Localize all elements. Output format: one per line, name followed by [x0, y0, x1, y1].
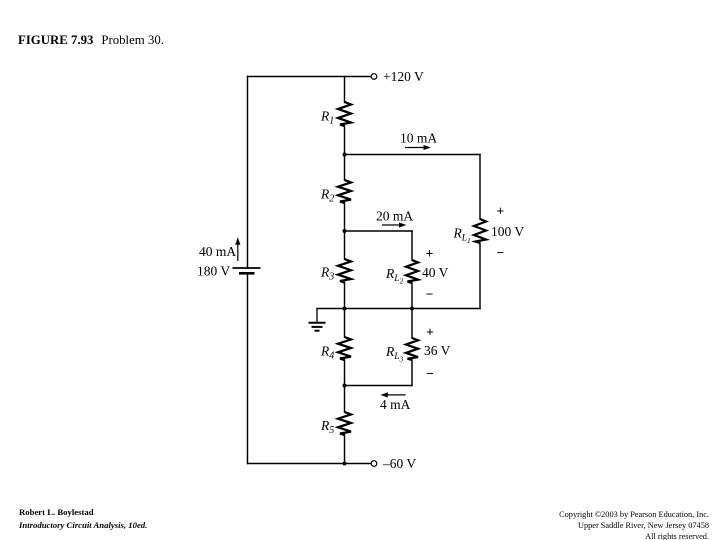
- wire: RL1 branch vertical upper: [479, 155, 481, 220]
- wire: 20 mA branch horizontal: [345, 230, 413, 232]
- svg-text:180 V: 180 V: [197, 264, 230, 279]
- node: bottom bus junction: [343, 462, 347, 466]
- node: main/ground bus junction: [343, 307, 347, 311]
- arrow: 4 mA current (left): [380, 392, 405, 397]
- svg-text:R1: R1: [320, 109, 334, 127]
- wire: main ladder R5 to bottom bus: [344, 435, 346, 464]
- arrow: 40 mA current (up): [235, 237, 240, 261]
- svg-text:+: +: [426, 325, 434, 340]
- resistor R1 zigzag: [338, 102, 351, 126]
- svg-text:RL1: RL1: [453, 226, 471, 245]
- resistor R3 zigzag: [338, 259, 351, 283]
- svg-text:−: −: [426, 366, 434, 381]
- wire: left source branch upper segment: [247, 77, 249, 268]
- terminal +120 V: [371, 74, 377, 80]
- ground symbol: [309, 309, 326, 331]
- svg-text:RL2: RL2: [385, 266, 404, 285]
- terminal -60 V: [371, 461, 377, 467]
- svg-text:40 mA: 40 mA: [199, 244, 236, 259]
- svg-text:RL3: RL3: [385, 344, 404, 363]
- resistor R2 zigzag: [338, 180, 351, 203]
- wire: main ladder R4 to R5 (through node y=385.5): [344, 360, 346, 412]
- wire: RL2 branch vertical lower: [411, 283, 413, 309]
- wire: main ladder R2 to R3 (through node at y=231): [344, 203, 346, 259]
- svg-text:+120 V: +120 V: [383, 69, 424, 84]
- svg-text:+: +: [426, 246, 434, 261]
- battery E 180 V long plate: [233, 267, 261, 269]
- wire: 4 mA return horizontal: [345, 385, 413, 387]
- wire: bottom bus to -60V terminal: [248, 463, 372, 465]
- resistor R5 zigzag: [338, 412, 351, 435]
- footer: copyright: [559, 509, 709, 540]
- svg-text:100 V: 100 V: [491, 224, 524, 239]
- footer: author credit: [19, 506, 147, 532]
- battery E 180 V short plate: [239, 272, 255, 275]
- figure caption: [18, 33, 164, 48]
- resistor R4 zigzag: [338, 337, 351, 360]
- node: main/10 mA branch junction: [343, 153, 347, 157]
- wire: main ladder x=344.5 top bus to R1: [344, 77, 346, 103]
- wire: main ladder R3 to R4 (through ground node y=308.5): [344, 283, 346, 338]
- wire: left source branch lower segment: [247, 275, 249, 464]
- svg-text:20 mA: 20 mA: [376, 209, 413, 224]
- svg-text:4 mA: 4 mA: [380, 397, 411, 412]
- wire: RL3 branch vertical lower: [411, 360, 413, 386]
- node: main/4 mA return junction: [343, 384, 347, 388]
- svg-text:R3: R3: [320, 265, 334, 283]
- resistor RL2 zigzag: [406, 260, 418, 283]
- svg-text:R4: R4: [320, 344, 334, 362]
- wire: top bus from source branch to +120V terminal: [248, 76, 372, 78]
- wire: RL2 branch vertical upper: [411, 231, 413, 260]
- svg-text:+: +: [497, 203, 505, 218]
- wire: main ladder R1 to R2 (through node at y=154.5): [344, 126, 346, 180]
- svg-text:40 V: 40 V: [422, 265, 449, 280]
- svg-text:R2: R2: [320, 187, 334, 205]
- wire: RL3 branch vertical upper: [411, 309, 413, 339]
- svg-text:–60 V: –60 V: [382, 456, 416, 471]
- wire: RL1 branch vertical lower: [479, 243, 481, 309]
- svg-text:−: −: [426, 287, 434, 302]
- svg-text:R5: R5: [320, 418, 334, 436]
- resistor RL3 zigzag: [406, 338, 418, 360]
- svg-text:10 mA: 10 mA: [400, 130, 437, 145]
- wire: 10 mA branch horizontal: [345, 154, 481, 156]
- node: ground bus / RL3 branch junction: [410, 307, 414, 311]
- node: main/20 mA branch junction: [343, 229, 347, 233]
- svg-text:−: −: [497, 245, 505, 260]
- arrow: 10 mA current: [405, 145, 431, 150]
- resistor RL1 zigzag: [474, 219, 486, 243]
- svg-text:36 V: 36 V: [424, 343, 451, 358]
- arrow: 20 mA current: [382, 223, 407, 228]
- wire: ground bus horizontal: [317, 308, 480, 310]
